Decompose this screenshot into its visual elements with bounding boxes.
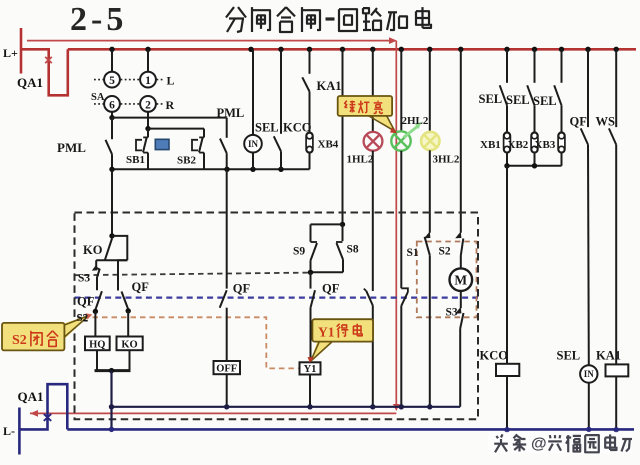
switch S8 bbox=[311, 224, 359, 272]
svg-text:KA1: KA1 bbox=[317, 79, 342, 93]
switch QF (above Y1) bbox=[311, 272, 340, 362]
switch WS bbox=[596, 49, 617, 144]
node S9/S8 bottom bbox=[308, 270, 313, 275]
switch QF (right) bbox=[570, 49, 589, 144]
signal path S2 to Y1 (orange dashed) bbox=[93, 317, 300, 368]
L- terminal bbox=[3, 408, 19, 455]
svg-text:2-5: 2-5 bbox=[70, 1, 127, 38]
coil KO bbox=[117, 337, 143, 351]
switch (2HL2 column) bbox=[401, 151, 408, 407]
current-flow arrow (top, L+ to lamp column) bbox=[27, 37, 397, 44]
svg-text:IN: IN bbox=[584, 369, 595, 379]
lamp 1HL2 (red) bbox=[347, 49, 383, 165]
svg-text:SB2: SB2 bbox=[177, 155, 196, 167]
svg-text:S8: S8 bbox=[347, 244, 359, 256]
contact QF (right leg) bbox=[118, 260, 149, 336]
switch S1 bbox=[407, 150, 431, 407]
wire into KO ladder bbox=[109, 169, 114, 238]
wire from bus to S9/S8 bbox=[311, 49, 346, 227]
indicator SEL IN (bottom) bbox=[557, 145, 598, 432]
contact KO bbox=[83, 239, 112, 260]
coil KA1 (bottom) bbox=[596, 145, 628, 433]
switch PML (right) bbox=[217, 106, 245, 169]
svg-text:R: R bbox=[166, 98, 175, 112]
svg-text:QF: QF bbox=[233, 282, 251, 296]
svg-text:S3: S3 bbox=[446, 307, 458, 319]
node from SA-2 to SB1/SB2 bbox=[145, 126, 204, 131]
svg-text:2HL2: 2HL2 bbox=[402, 115, 429, 127]
svg-text:6: 6 bbox=[109, 99, 115, 111]
coil Y1 bbox=[300, 362, 321, 407]
switch KA1 (top) bbox=[302, 49, 341, 93]
fuse-link XB4 bbox=[306, 92, 339, 170]
watermark 头条@兴福园电力 bbox=[488, 432, 632, 454]
svg-text:XB4: XB4 bbox=[318, 139, 339, 151]
svg-text:S2: S2 bbox=[439, 246, 451, 258]
fuse-link XB3 bbox=[535, 132, 565, 166]
svg-text:3HL2: 3HL2 bbox=[433, 154, 460, 166]
motor M bbox=[450, 268, 473, 291]
svg-text:PML: PML bbox=[57, 140, 86, 155]
svg-text:IN: IN bbox=[248, 139, 259, 149]
dashed enclosure box bbox=[75, 213, 479, 420]
coil HQ bbox=[85, 337, 110, 351]
current-flow line (vertical, x=396) bbox=[393, 41, 400, 411]
switch SEL #3 bbox=[533, 49, 562, 132]
svg-text:M: M bbox=[454, 273, 467, 288]
L+ terminal bbox=[3, 28, 21, 74]
callout Y1得电 (Y1 energized) bbox=[308, 319, 374, 363]
switch SEL #1 bbox=[479, 49, 508, 132]
bus junction dots bbox=[109, 47, 619, 52]
svg-text:5: 5 bbox=[109, 75, 115, 87]
contact S3 (left leg) bbox=[78, 260, 100, 290]
indicator SEL IN (top) bbox=[244, 49, 278, 169]
svg-text:Y1: Y1 bbox=[318, 325, 335, 340]
lamp 2HL2 (green) bbox=[391, 49, 429, 150]
switch S2 bbox=[439, 49, 464, 268]
svg-text:XB3: XB3 bbox=[535, 139, 556, 151]
svg-text:SA: SA bbox=[91, 92, 105, 103]
svg-text:@: @ bbox=[531, 436, 547, 453]
svg-text:QA1: QA1 bbox=[18, 389, 44, 404]
coil KCO (bottom) bbox=[480, 166, 520, 433]
disconnect switch QA1 (top) bbox=[17, 49, 68, 95]
svg-text:SEL: SEL bbox=[557, 349, 581, 363]
svg-text:KCO: KCO bbox=[480, 349, 509, 363]
svg-text:KO: KO bbox=[83, 243, 103, 257]
svg-text:KA1: KA1 bbox=[596, 349, 621, 363]
switch KCO (top) bbox=[274, 49, 312, 169]
wire node row (y=169) bbox=[109, 167, 309, 172]
svg-text:SEL: SEL bbox=[506, 93, 530, 107]
svg-text:HQ: HQ bbox=[89, 340, 105, 351]
svg-text:PML: PML bbox=[217, 106, 245, 120]
bus L- (blue) bbox=[67, 428, 634, 431]
current-flow return arrow (bottom, to L-) bbox=[30, 410, 396, 417]
svg-text:S3: S3 bbox=[78, 273, 90, 285]
switch S3 bbox=[446, 291, 464, 407]
svg-text:S1: S1 bbox=[407, 247, 419, 259]
bus L+ (red) bbox=[68, 48, 636, 51]
svg-text:L+: L+ bbox=[3, 46, 18, 60]
svg-text:QF: QF bbox=[77, 295, 95, 309]
svg-text:QF: QF bbox=[570, 115, 588, 129]
ladder crossbar bbox=[96, 236, 127, 260]
blue marker rectangle bbox=[155, 139, 169, 149]
node from SA-6 to PML switches bbox=[109, 115, 226, 120]
pushbutton SB1 bbox=[126, 129, 148, 170]
svg-text:S2: S2 bbox=[12, 333, 27, 348]
disconnect switch QA1 (bottom) bbox=[18, 384, 68, 429]
svg-text:L: L bbox=[167, 74, 175, 88]
svg-text:S9: S9 bbox=[293, 246, 305, 258]
svg-text:KO: KO bbox=[121, 340, 137, 351]
callout 绿灯亮 (green lamp on) bbox=[338, 96, 397, 133]
fuse-link XB1 bbox=[480, 132, 510, 166]
node line (bottom of dashed box) bbox=[109, 404, 460, 409]
switch SEL #2 bbox=[506, 49, 535, 132]
switch QF (above OFF) bbox=[220, 169, 251, 361]
svg-text:QF: QF bbox=[322, 282, 340, 296]
coil OFF bbox=[214, 361, 241, 407]
node XB1-XB3 join bbox=[504, 163, 561, 168]
title 分闸合闸-回路加电 bbox=[226, 7, 431, 32]
svg-text:XB2: XB2 bbox=[508, 139, 529, 151]
svg-text:XB1: XB1 bbox=[480, 139, 501, 151]
svg-text:SEL: SEL bbox=[479, 92, 503, 106]
fuse-link XB2 bbox=[508, 132, 538, 166]
switch PML (left) bbox=[57, 118, 112, 170]
svg-text:Y1: Y1 bbox=[304, 364, 317, 375]
title 2-5 bbox=[70, 1, 127, 38]
switch (1HL2 column) bbox=[364, 151, 373, 407]
svg-text:WS: WS bbox=[596, 115, 616, 129]
mechanical link (black dashed) bbox=[75, 273, 311, 276]
mechanical link QF (blue dashed) bbox=[75, 297, 479, 299]
contact QF (left leg) bbox=[77, 291, 102, 336]
svg-text:2: 2 bbox=[145, 99, 151, 111]
svg-text:SEL: SEL bbox=[533, 94, 557, 108]
highlight box S1/S2/M (orange dashed) bbox=[417, 242, 477, 318]
selector switch SA contacts 5-6 / 1-2 bbox=[91, 49, 175, 128]
svg-text:L-: L- bbox=[3, 424, 15, 438]
pushbutton SB2 bbox=[177, 129, 204, 170]
label S2 (at switch) bbox=[77, 312, 89, 324]
svg-text:S2: S2 bbox=[77, 312, 89, 324]
svg-text:SEL: SEL bbox=[255, 121, 279, 135]
svg-text:OFF: OFF bbox=[216, 364, 237, 375]
callout S2闭合 (S2 closes) bbox=[2, 313, 92, 350]
HQ/KO join to L- bus bbox=[95, 350, 131, 432]
switch S9 bbox=[293, 224, 317, 272]
svg-text:QF: QF bbox=[132, 280, 150, 294]
lamp 3HL2 (yellow) bbox=[421, 49, 460, 165]
svg-text:1HL2: 1HL2 bbox=[347, 154, 374, 166]
svg-text:1: 1 bbox=[145, 75, 151, 87]
svg-text:SB1: SB1 bbox=[126, 154, 145, 166]
svg-text:QA1: QA1 bbox=[17, 75, 43, 90]
